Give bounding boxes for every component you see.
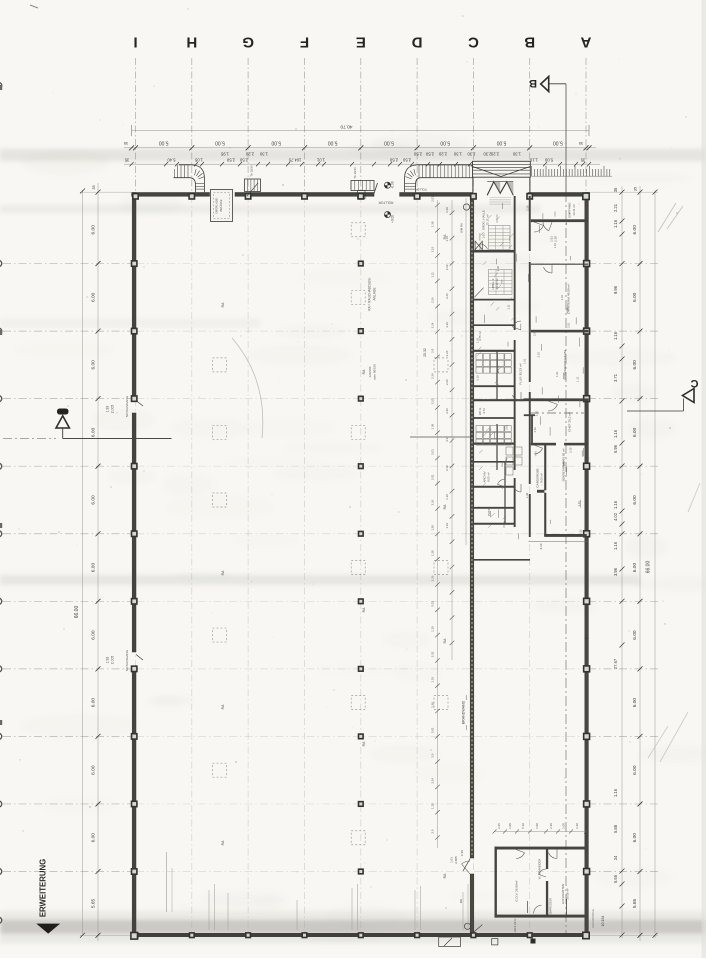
svg-text:F 90: F 90 [460,850,464,856]
svg-text:FLUR 35.23 m²: FLUR 35.23 m² [519,363,523,384]
svg-text:4.73: 4.73 [482,408,486,414]
svg-text:-0.90: -0.90 [391,181,395,188]
svg-text:RA: RA [362,741,366,746]
svg-text:1.19: 1.19 [431,677,435,683]
svg-text:2.01: 2.01 [431,474,435,480]
svg-text:B: B [524,34,535,51]
svg-text:RA: RA [362,607,366,612]
column grid lines [135,58,137,192]
svg-text:5.01: 5.01 [431,601,435,607]
svg-text:C: C [468,34,479,51]
office clutter marks (tiny labels and dims) [477,203,583,539]
loading dock UEBERLADEBRUECKE [211,190,233,222]
EDV mid wall [546,849,548,869]
svg-text:6.00: 6.00 [90,495,96,505]
door swing arcs office [534,225,543,232]
svg-text:ANLAGE: ANLAGE [373,288,377,301]
right room dimension chain [621,186,623,938]
top edge tick [30,5,38,8]
svg-text:WH: WH [459,899,463,903]
svg-text:2.01: 2.01 [504,424,508,430]
svg-text:RA: RA [221,704,225,709]
svg-text:1.01: 1.01 [475,337,479,343]
svg-text:5.00: 5.00 [271,140,281,146]
svg-text:2.26: 2.26 [431,373,435,379]
left 66.00 dimension line [82,190,84,936]
svg-text:CHEF 25.2 m²: CHEF 25.2 m² [568,412,572,432]
entrance double door M symbol [487,182,513,196]
svg-text:BRANDWAND: BRANDWAND [462,700,466,724]
svg-text:RA: RA [443,504,447,509]
svg-text:2.01: 2.01 [431,651,435,657]
EDV block left wall [495,847,497,918]
small verticals near bottom-left of hall [208,890,210,930]
svg-text:2.50: 2.50 [239,158,248,163]
column squares on walls [132,193,139,200]
svg-text:5.65: 5.65 [90,899,96,909]
svg-text:1.01: 1.01 [523,358,527,364]
section line C-C into plan [530,412,584,414]
right 6.00 chain [639,186,641,941]
svg-text:BRÜCKE: BRÜCKE [219,199,223,211]
svg-text:2.50: 2.50 [389,158,398,163]
svg-text:25.17 m²: 25.17 m² [486,214,490,225]
svg-text:6.00: 6.00 [632,630,638,640]
svg-text:Tb 18/26: Tb 18/26 [250,165,254,177]
svg-text:1.11: 1.11 [431,272,435,278]
svg-text:3.10: 3.10 [445,264,449,270]
svg-text:6.00: 6.00 [632,292,638,302]
F90 firewall door [463,859,470,872]
svg-text:3.24: 3.24 [431,778,435,784]
svg-text:RA: RA [362,369,366,374]
svg-text:2.26: 2.26 [445,350,449,356]
skylight dashed squares [213,358,227,372]
svg-text:3.10: 3.10 [565,307,569,313]
svg-text:1.93: 1.93 [106,406,110,413]
svg-text:1.38: 1.38 [431,525,435,531]
svg-text:2.9: 2.9 [445,437,449,441]
svg-text:SEKRETARIAT 16.50 m²: SEKRETARIAT 16.50 m² [562,448,566,481]
svg-text:3.10: 3.10 [476,375,480,381]
svg-text:1.00: 1.00 [562,823,566,829]
svg-text:Tb 18/26: Tb 18/26 [353,167,357,179]
svg-text:RA: RA [221,840,225,845]
svg-text:5.88: 5.88 [613,824,618,833]
svg-text:2.30: 2.30 [483,152,492,157]
svg-text:2.9: 2.9 [431,753,435,757]
svg-text:FLUR 9.31m²: FLUR 9.31m² [513,919,517,936]
svg-text:2.50: 2.50 [402,158,411,163]
svg-text:2.50: 2.50 [226,158,235,163]
svg-text:3.10: 3.10 [431,398,435,404]
svg-text:1.01: 1.01 [316,158,325,163]
svg-text:2.30: 2.30 [554,236,558,242]
svg-text:NOTAUSGANG: NOTAUSGANG [125,649,129,671]
svg-text:6.00: 6.00 [632,833,638,843]
svg-text:1.05: 1.05 [194,158,203,163]
svg-text:1.01: 1.01 [555,371,559,377]
svg-text:D: D [412,34,423,51]
svg-text:6.00: 6.00 [632,360,638,370]
svg-text:35: 35 [613,187,618,192]
svg-text:27.67: 27.67 [613,658,618,669]
svg-text:5.00: 5.00 [553,140,563,146]
svg-text:2.01: 2.01 [579,529,583,535]
svg-text:3.24: 3.24 [431,322,435,328]
pencil scribbles right margin [658,203,683,232]
svg-text:2.26: 2.26 [445,322,449,328]
svg-text:1.01: 1.01 [450,857,454,863]
svg-text:5.10: 5.10 [521,823,525,829]
svg-text:3.96: 3.96 [613,567,618,576]
svg-text:10.154: 10.154 [601,916,605,927]
svg-text:1.38: 1.38 [431,221,435,227]
svg-text:2.25: 2.25 [497,823,501,829]
interior dimension chain lines (vertical, office west) [437,200,439,848]
svg-text:3.10: 3.10 [445,465,449,471]
svg-text:2.26: 2.26 [445,293,449,299]
svg-text:NOTAUSGANG: NOTAUSGANG [125,395,129,417]
internal partition stubs [496,351,498,400]
svg-text:1.16: 1.16 [613,500,618,509]
EDV block bottom wall [495,915,587,918]
svg-text:1.19: 1.19 [431,246,435,252]
right 66.00 line [654,190,656,938]
svg-text:H: H [186,34,197,51]
svg-text:2.26: 2.26 [431,499,435,505]
svg-text:oder 80/100: oder 80/100 [373,364,377,380]
annex rooms below bottom wall [439,937,461,946]
corridor east wall [529,196,531,251]
svg-text:1.01: 1.01 [577,501,581,507]
svg-text:1.16: 1.16 [613,541,618,550]
overall dimension 40.70 line [132,130,589,132]
svg-text:9.96: 9.96 [613,285,618,294]
svg-text:66.00: 66.00 [74,606,80,619]
svg-text:6.00: 6.00 [632,427,638,437]
svg-text:1.19: 1.19 [445,523,449,529]
svg-text:E.D.V. 26.59m²: E.D.V. 26.59m² [515,881,519,902]
svg-text:RA = RAUCHABZUGS-: RA = RAUCHABZUGS- [368,277,372,310]
svg-text:1.00: 1.00 [508,823,512,829]
svg-text:6.00: 6.00 [90,833,96,843]
stair Tb18/26 left [245,179,261,192]
svg-text:1.30: 1.30 [453,152,462,157]
svg-text:1.19: 1.19 [445,494,449,500]
EDV block top wall [495,847,587,850]
faint pencil arc in hall [232,338,263,438]
svg-text:EMPFANG: EMPFANG [568,202,572,218]
svg-text:1.19: 1.19 [431,803,435,809]
svg-text:6.00: 6.00 [90,765,96,775]
svg-text:5.00: 5.00 [440,140,450,146]
svg-text:5.00: 5.00 [384,140,394,146]
svg-text:1.16: 1.16 [613,429,618,438]
stairs in office (two flights, faint) [489,226,511,250]
svg-text:6.00: 6.00 [90,630,96,640]
svg-text:35: 35 [578,141,583,146]
svg-text:C: C [690,377,698,389]
svg-text:1.38: 1.38 [525,492,529,498]
svg-text:KOMPRESSOR: KOMPRESSOR [550,898,553,916]
svg-text:2.30: 2.30 [549,823,553,829]
svg-text:3.10: 3.10 [536,352,540,358]
WC stall grids [476,354,482,360]
spiral ramp at top-left [179,165,204,192]
svg-text:6.00: 6.00 [632,765,638,775]
svg-text:40.70: 40.70 [340,124,352,130]
svg-text:1.38: 1.38 [431,702,435,708]
svg-text:35: 35 [633,187,638,191]
svg-text:6.00: 6.00 [632,698,638,708]
svg-text:6.00: 6.00 [632,563,638,573]
svg-text:E: E [356,34,366,51]
svg-text:1.95: 1.95 [220,152,229,157]
svg-text:1.19: 1.19 [445,236,449,242]
hall right outer wall [585,193,589,639]
svg-text:120/100: 120/100 [368,366,372,377]
svg-text:1.11: 1.11 [506,304,510,310]
svg-text:6.00: 6.00 [90,360,96,370]
svg-text:2.26: 2.26 [431,575,435,581]
svg-text:34: 34 [613,855,618,860]
room walls east side [531,219,589,222]
svg-text:20.58 m²: 20.58 m² [566,888,570,899]
svg-text:5.40: 5.40 [167,158,176,163]
svg-text:2.01: 2.01 [533,427,537,433]
svg-text:35: 35 [124,158,129,163]
svg-text:1.11: 1.11 [576,376,580,382]
svg-text:1.00: 1.00 [535,823,539,829]
svg-text:POLLER: POLLER [415,188,426,192]
hall bottom wall [132,933,589,936]
svg-text:6.00: 6.00 [632,495,638,505]
right edge scan band [702,0,706,958]
svg-text:3.71: 3.71 [613,373,618,382]
svg-text:2.005: 2.005 [111,656,115,665]
svg-text:RA: RA [443,638,447,643]
section line D-D horizontal [63,438,172,440]
svg-text:2.01: 2.01 [566,322,570,328]
svg-text:A: A [580,34,591,51]
row grid lines [3,263,131,265]
svg-text:2.005: 2.005 [454,856,458,864]
5.00 dimension chain line [124,147,596,149]
svg-text:+0.00: +0.00 [391,215,395,223]
hall left wall [132,193,136,401]
svg-text:G: G [242,34,254,51]
roll door ROLLTOR opening [374,183,378,194]
svg-text:2.30: 2.30 [496,265,500,271]
svg-text:6.00: 6.00 [90,292,96,302]
svg-text:35: 35 [91,185,96,189]
detail dimension chain (second row) [124,163,470,165]
svg-text:1.38: 1.38 [431,550,435,556]
svg-text:2.26: 2.26 [431,297,435,303]
svg-text:2.9: 2.9 [431,829,435,833]
corridor west wall [514,196,516,330]
svg-text:ROLLTOR: ROLLTOR [378,201,393,205]
svg-text:1.01: 1.01 [482,233,486,239]
svg-text:66.00: 66.00 [645,561,651,574]
svg-text:2.50: 2.50 [413,152,422,157]
firewall BRANDWAND on axis C [470,196,474,858]
ramp elbow right of axis D [405,165,430,192]
entrance vestibule canopy (striped band with chevron) [473,161,531,177]
svg-text:2.30: 2.30 [569,447,573,453]
svg-text:RA: RA [221,302,225,307]
svg-text:ERWEITERUNG: ERWEITERUNG [39,859,48,917]
svg-text:RA: RA [443,873,447,878]
svg-text:2.005: 2.005 [111,405,115,414]
svg-text:3.10: 3.10 [534,410,538,416]
svg-text:1.01: 1.01 [553,243,557,249]
small fixtures near corridor [506,447,513,455]
svg-text:W. SCHNEIDER: W. SCHNEIDER [538,859,542,880]
hall top wall [132,193,210,197]
svg-text:5.96: 5.96 [613,444,618,453]
svg-text:2.26: 2.26 [445,379,449,385]
level marker +0.00 [384,212,390,218]
svg-text:5.00: 5.00 [215,140,225,146]
left edge cut-off marks [0,85,2,90]
EDV door arcs [516,853,525,859]
svg-text:1.30: 1.30 [512,152,521,157]
svg-text:5.65: 5.65 [632,899,638,909]
svg-text:104.75: 104.75 [288,158,301,163]
stair Tb18/26 mid [351,181,374,191]
wall axis extension lines [80,191,131,193]
svg-text:1.16: 1.16 [613,219,618,228]
svg-text:I: I [133,34,137,51]
svg-text:5.65: 5.65 [613,874,618,883]
svg-text:2.01: 2.01 [431,196,435,202]
svg-text:1.19: 1.19 [431,626,435,632]
svg-text:1.30: 1.30 [467,152,476,157]
row marker stubs at left edge [0,83,2,89]
svg-text:5.00: 5.00 [496,140,506,146]
svg-text:9.06 m²: 9.06 m² [540,473,544,483]
svg-text:2.01: 2.01 [431,449,435,455]
svg-text:1.93: 1.93 [106,657,110,664]
svg-text:2.20: 2.20 [245,152,254,157]
svg-text:2.30: 2.30 [575,823,579,829]
svg-text:2.50: 2.50 [425,152,434,157]
faint sketch stairs at vestibule back [489,197,511,199]
section mark D with arrow [57,409,69,415]
svg-text:RA: RA [221,570,225,575]
svg-text:9.10: 9.10 [539,543,543,549]
svg-text:HAUSANSCHL.: HAUSANSCHL. [591,908,595,928]
svg-text:2.30: 2.30 [526,205,530,211]
svg-text:5.00: 5.00 [159,140,169,146]
svg-text:25.32: 25.32 [423,348,427,357]
svg-text:6.00: 6.00 [632,225,638,235]
dim chain above EDV block [494,831,586,833]
svg-text:6.00: 6.00 [90,698,96,708]
svg-text:8.05 m²: 8.05 m² [487,472,491,482]
svg-text:35: 35 [123,141,128,146]
svg-text:2.9: 2.9 [431,348,435,352]
svg-text:5.00: 5.00 [544,158,553,163]
svg-text:5.00: 5.00 [328,140,338,146]
entrance ramp horizontal band [430,165,473,178]
svg-text:B: B [529,77,537,89]
left 6.00 chain line [97,183,99,941]
svg-text:6.00: 6.00 [90,427,96,437]
entry steps comb right of vestibule [532,175,613,177]
svg-text:2.26: 2.26 [445,408,449,414]
mid-hall columns on axis E [358,260,364,266]
svg-text:13.41 m²: 13.41 m² [572,204,576,215]
svg-text:1.16: 1.16 [613,788,618,797]
svg-text:5.01: 5.01 [431,727,435,733]
level marker -0.90 [384,182,390,188]
svg-text:1.16: 1.16 [613,331,618,340]
svg-text:3.10: 3.10 [445,207,449,213]
svg-text:6.00: 6.00 [90,563,96,573]
svg-text:LOCHKARTEN: LOCHKARTEN [561,884,565,904]
room walls west side (small rooms) [474,250,514,253]
svg-text:6.00: 6.00 [90,225,96,235]
svg-text:2.20: 2.20 [438,152,447,157]
svg-text:ÜBERLADE-: ÜBERLADE- [215,197,219,214]
svg-text:1.30: 1.30 [259,152,268,157]
svg-text:4.02: 4.02 [613,512,618,521]
vestibule side walls [472,177,474,192]
svg-text:2.01: 2.01 [533,330,537,336]
svg-text:1.38: 1.38 [431,424,435,430]
expansion arrow black triangle [36,924,60,934]
svg-text:WM RA: WM RA [460,223,464,233]
svg-text:35: 35 [580,158,585,163]
svg-text:2.21: 2.21 [613,203,618,212]
svg-text:1.01: 1.01 [560,294,564,300]
section line B-B vertical [565,84,567,192]
svg-text:F: F [300,34,309,51]
